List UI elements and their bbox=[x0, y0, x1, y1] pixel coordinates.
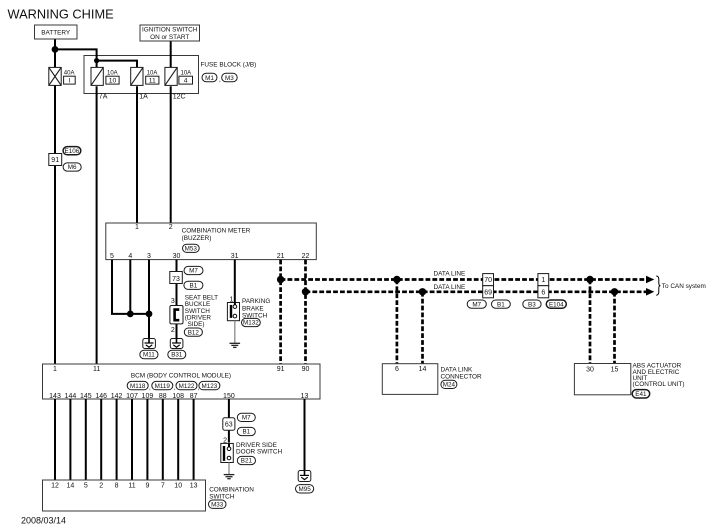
connector 69 box bbox=[483, 286, 494, 298]
svg-text:E104: E104 bbox=[549, 301, 564, 308]
svg-text:2: 2 bbox=[171, 327, 175, 334]
svg-text:143: 143 bbox=[49, 393, 61, 400]
ABS actuator unit bbox=[574, 363, 684, 395]
svg-text:88: 88 bbox=[159, 393, 167, 400]
fuse 10A (4) bbox=[165, 67, 191, 85]
fusible link 40A bbox=[49, 67, 75, 85]
svg-text:5: 5 bbox=[110, 253, 114, 260]
wire ignition feed bbox=[170, 41, 172, 67]
arrow CAN-H bbox=[646, 276, 654, 284]
wire CAN-L data line bbox=[306, 290, 647, 293]
svg-text:2008/03/14: 2008/03/14 bbox=[21, 515, 66, 525]
connector M11 bbox=[140, 350, 158, 358]
connector M1 bbox=[202, 73, 221, 83]
node ABS 15 bbox=[611, 288, 618, 295]
fuse 10A (11) bbox=[131, 67, 158, 85]
wire BCM 87 bbox=[193, 399, 195, 480]
connector 91 box bbox=[49, 154, 62, 166]
connector B31 bbox=[168, 350, 186, 358]
svg-text:12: 12 bbox=[51, 482, 59, 489]
svg-text:14: 14 bbox=[419, 366, 427, 373]
svg-text:M1: M1 bbox=[205, 75, 214, 82]
connector 6 box bbox=[538, 286, 549, 298]
fuse ref 4 bbox=[179, 76, 193, 84]
connector E104 bbox=[546, 300, 566, 308]
svg-text:10: 10 bbox=[174, 482, 182, 489]
svg-text:BRAKE: BRAKE bbox=[242, 305, 264, 312]
svg-text:107: 107 bbox=[126, 393, 138, 400]
svg-text:M132: M132 bbox=[243, 320, 259, 327]
ground parking brake bbox=[230, 343, 241, 347]
svg-text:M95: M95 bbox=[298, 486, 311, 493]
svg-text:M7: M7 bbox=[242, 415, 251, 422]
wire BCM 13 to M95 bbox=[304, 399, 306, 471]
connector M3 bbox=[222, 73, 238, 82]
svg-text:2: 2 bbox=[169, 224, 173, 231]
label parking brake switch bbox=[242, 298, 270, 319]
ground M11 bbox=[143, 339, 156, 349]
wire BCM 108 bbox=[177, 399, 179, 480]
wire meter pin 30 to seat belt switch bbox=[176, 260, 178, 306]
connector M7 bbox=[184, 266, 203, 274]
wire data link pin 6 bbox=[396, 280, 399, 364]
connector M33 bbox=[209, 500, 227, 508]
node pin3 junction bbox=[146, 311, 153, 318]
svg-text:BCM (BODY CONTROL MODULE): BCM (BODY CONTROL MODULE) bbox=[131, 373, 231, 380]
svg-text:B1: B1 bbox=[190, 283, 198, 290]
wire meter pin 3 to ground bbox=[148, 260, 150, 339]
svg-text:M53: M53 bbox=[185, 246, 198, 253]
wire CAN-H vertical (21 to 91) bbox=[279, 260, 282, 364]
battery B1 bbox=[35, 25, 78, 39]
connector B3 bbox=[523, 300, 541, 308]
wire BCM 150 to door switch bbox=[228, 399, 230, 443]
wire battery feed bbox=[55, 39, 137, 364]
svg-text:11: 11 bbox=[149, 78, 156, 85]
driver side door switch bbox=[221, 443, 234, 462]
svg-text:,: , bbox=[149, 385, 151, 392]
wire BCM 146 bbox=[100, 399, 102, 480]
node data link 14 bbox=[419, 288, 426, 295]
svg-text:144: 144 bbox=[65, 393, 77, 400]
svg-text:COMBINATION: COMBINATION bbox=[209, 486, 254, 493]
svg-text:B31: B31 bbox=[171, 352, 183, 359]
svg-text:E41: E41 bbox=[635, 391, 647, 398]
svg-text:COMBINATION METER: COMBINATION METER bbox=[182, 228, 251, 235]
svg-text:14: 14 bbox=[67, 482, 75, 489]
BCM body control module bbox=[43, 364, 321, 399]
svg-text:9: 9 bbox=[145, 482, 149, 489]
svg-text:1: 1 bbox=[135, 224, 139, 231]
wire door switch to ground bbox=[228, 463, 230, 475]
svg-text:1: 1 bbox=[53, 366, 57, 373]
svg-text:1A: 1A bbox=[139, 94, 148, 101]
svg-text:FUSE BLOCK (J/B): FUSE BLOCK (J/B) bbox=[201, 61, 257, 68]
svg-text:2: 2 bbox=[99, 482, 103, 489]
svg-text:B12: B12 bbox=[188, 329, 200, 336]
node ABS 30 bbox=[586, 276, 593, 283]
connector B1 bbox=[184, 281, 203, 289]
svg-text:PARKING: PARKING bbox=[242, 298, 270, 305]
svg-text:B3: B3 bbox=[528, 301, 536, 308]
svg-text:146: 146 bbox=[95, 393, 107, 400]
svg-text:M33: M33 bbox=[211, 501, 224, 508]
svg-text:5: 5 bbox=[84, 482, 88, 489]
connector E41 bbox=[632, 390, 650, 398]
svg-text:M3: M3 bbox=[225, 75, 234, 82]
svg-text:13: 13 bbox=[301, 393, 309, 400]
svg-text:13: 13 bbox=[190, 482, 198, 489]
fuse ref I bbox=[64, 76, 76, 84]
svg-text:12C: 12C bbox=[173, 94, 186, 101]
brace to CAN bbox=[656, 276, 660, 295]
wire meter pin 4 bbox=[129, 260, 131, 314]
connector E106 bbox=[63, 147, 81, 155]
svg-text:70: 70 bbox=[484, 277, 492, 284]
connector M132 bbox=[242, 318, 261, 326]
connector B12 bbox=[184, 328, 202, 336]
svg-text:7: 7 bbox=[161, 482, 165, 489]
svg-text:B21: B21 bbox=[241, 458, 253, 465]
connector M53 bbox=[183, 244, 200, 252]
svg-text:11: 11 bbox=[93, 366, 100, 373]
svg-text:B1: B1 bbox=[242, 429, 250, 436]
combination switch bbox=[43, 480, 255, 511]
label driver side door switch bbox=[236, 442, 283, 456]
seat belt buckle switch bbox=[170, 306, 183, 324]
svg-text:87: 87 bbox=[190, 393, 198, 400]
connector M7 door bbox=[237, 413, 255, 421]
svg-text:M6: M6 bbox=[68, 164, 77, 171]
svg-text:DATA LINE: DATA LINE bbox=[434, 271, 466, 278]
connector M123 bbox=[199, 381, 220, 389]
wire ABS pin 15 bbox=[613, 292, 616, 364]
connector M95 bbox=[296, 485, 314, 493]
svg-text:63: 63 bbox=[225, 422, 233, 429]
svg-text:(CONTROL UNIT): (CONTROL UNIT) bbox=[633, 381, 685, 388]
svg-text:1: 1 bbox=[541, 277, 545, 284]
svg-text:M123: M123 bbox=[202, 383, 218, 390]
svg-text:30: 30 bbox=[173, 253, 181, 260]
connector M118 bbox=[127, 381, 151, 391]
ground M95 bbox=[298, 471, 311, 482]
svg-text:M118: M118 bbox=[130, 383, 146, 390]
svg-text:22: 22 bbox=[302, 253, 310, 260]
wire BCM 143 bbox=[54, 399, 56, 480]
svg-text:69: 69 bbox=[484, 290, 492, 297]
connector M119 bbox=[152, 381, 176, 391]
svg-text:6: 6 bbox=[395, 366, 399, 373]
node CAN-L 22 bbox=[302, 288, 309, 295]
connector 63 box bbox=[223, 418, 235, 430]
ground B31 bbox=[170, 339, 183, 349]
svg-text:21: 21 bbox=[277, 253, 285, 260]
svg-text:(BUZZER): (BUZZER) bbox=[182, 235, 212, 242]
fuse 10A (10) bbox=[91, 67, 118, 85]
svg-text:,: , bbox=[174, 385, 176, 392]
svg-text:M7: M7 bbox=[189, 268, 198, 275]
connector M122 bbox=[176, 381, 200, 391]
svg-text:30: 30 bbox=[586, 366, 594, 373]
wire seat belt switch to B31 ground bbox=[176, 324, 178, 339]
svg-text:4: 4 bbox=[184, 78, 188, 85]
wire 1A bbox=[136, 86, 138, 223]
svg-text:CONNECTOR: CONNECTOR bbox=[441, 373, 482, 380]
svg-text:3: 3 bbox=[147, 253, 151, 260]
svg-text:ON or START: ON or START bbox=[150, 34, 189, 41]
svg-text:31: 31 bbox=[231, 253, 239, 260]
svg-text:I: I bbox=[68, 78, 70, 85]
node CAN-H 21 bbox=[277, 276, 284, 283]
svg-text:11: 11 bbox=[128, 482, 135, 489]
wire BCM 107 bbox=[131, 399, 133, 480]
svg-text:91: 91 bbox=[277, 366, 285, 373]
svg-text:142: 142 bbox=[111, 393, 123, 400]
wire BCM 145 bbox=[85, 399, 87, 480]
wire BCM 109 bbox=[146, 399, 148, 480]
combination meter (buzzer) bbox=[106, 223, 316, 260]
svg-text:M119: M119 bbox=[155, 383, 171, 390]
svg-text:108: 108 bbox=[172, 393, 184, 400]
svg-text:90: 90 bbox=[302, 366, 310, 373]
connector B1 door bbox=[237, 427, 255, 435]
svg-text:145: 145 bbox=[80, 393, 92, 400]
data link connector bbox=[382, 364, 482, 395]
ignition switch bbox=[140, 25, 200, 41]
wire data link pin 14 bbox=[421, 292, 424, 364]
connector M7 data line bbox=[467, 300, 486, 308]
wire BCM 88 bbox=[162, 399, 164, 480]
svg-text:SWITCH: SWITCH bbox=[209, 493, 235, 500]
node battery junction bbox=[52, 46, 59, 53]
svg-text:3: 3 bbox=[171, 298, 175, 305]
label seat belt switch bbox=[185, 295, 218, 328]
svg-text:150: 150 bbox=[223, 393, 235, 400]
ground door switch bbox=[224, 475, 235, 479]
svg-text:IGNITION SWITCH: IGNITION SWITCH bbox=[142, 27, 198, 34]
svg-text:109: 109 bbox=[142, 393, 154, 400]
svg-text:DOOR SWITCH: DOOR SWITCH bbox=[236, 449, 283, 456]
wire BCM 142 bbox=[116, 399, 118, 480]
node data link 6 bbox=[393, 276, 400, 283]
connector B1 data line bbox=[492, 300, 511, 308]
wire ABS pin 30 bbox=[589, 280, 592, 364]
svg-text:15: 15 bbox=[611, 366, 619, 373]
svg-text:,: , bbox=[219, 77, 221, 84]
svg-text:M7: M7 bbox=[472, 301, 481, 308]
wire meter pin 5 bbox=[112, 260, 149, 314]
svg-text:73: 73 bbox=[172, 276, 180, 283]
svg-text:DATA LINE: DATA LINE bbox=[434, 284, 466, 291]
node fuse-block junction bbox=[94, 58, 99, 63]
wire meter pin 31 to parking brake switch bbox=[234, 260, 236, 303]
arrow CAN-L bbox=[646, 288, 654, 296]
node pin4 junction bbox=[127, 311, 134, 318]
connector 1 box bbox=[538, 274, 549, 286]
fuse block J/B bbox=[84, 56, 256, 94]
svg-text:To CAN system: To CAN system bbox=[662, 283, 706, 290]
svg-text:E106: E106 bbox=[65, 148, 80, 155]
wire parking brake to ground bbox=[234, 321, 236, 344]
svg-text:M11: M11 bbox=[143, 352, 155, 359]
parking brake switch bbox=[227, 303, 239, 321]
connector 73 box bbox=[170, 272, 183, 284]
fuse ref 10 bbox=[106, 76, 119, 84]
connector B21 bbox=[237, 456, 255, 464]
wire 7A bbox=[96, 86, 98, 364]
svg-text:BATTERY: BATTERY bbox=[41, 30, 71, 37]
svg-text:WARNING CHIME: WARNING CHIME bbox=[8, 6, 114, 21]
wire BCM 144 bbox=[69, 399, 71, 480]
svg-text:10: 10 bbox=[109, 78, 117, 85]
svg-text:SIDE): SIDE) bbox=[188, 321, 205, 328]
svg-text:M122: M122 bbox=[179, 383, 195, 390]
wire CAN-H data line bbox=[281, 278, 647, 281]
connector 70 box bbox=[483, 274, 494, 286]
connector M6 bbox=[63, 163, 81, 171]
svg-text:M24: M24 bbox=[443, 382, 456, 389]
connector M24 bbox=[441, 380, 457, 388]
svg-text:8: 8 bbox=[115, 482, 119, 489]
fuse ref 11 bbox=[146, 76, 159, 84]
svg-text:B1: B1 bbox=[497, 301, 505, 308]
wire 12C bbox=[170, 86, 172, 223]
svg-text:DATA LINK: DATA LINK bbox=[441, 366, 473, 373]
svg-text:6: 6 bbox=[541, 290, 545, 297]
wire CAN-L vertical (22 to 90) bbox=[304, 260, 307, 364]
svg-text:4: 4 bbox=[128, 253, 132, 260]
svg-text:91: 91 bbox=[51, 157, 59, 164]
svg-text:7A: 7A bbox=[99, 94, 108, 101]
